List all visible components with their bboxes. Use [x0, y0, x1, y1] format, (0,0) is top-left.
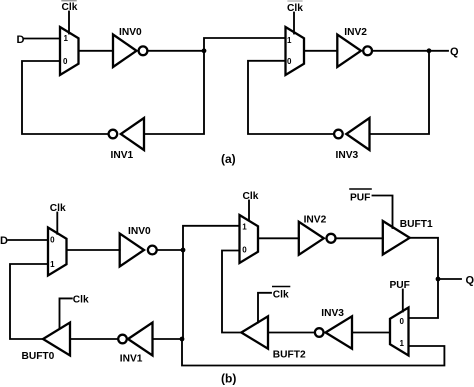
svg-text:0: 0: [400, 317, 405, 326]
wire Clk to M0: [68, 12, 70, 34]
svg-text:(a): (a): [221, 152, 236, 166]
svg-text:PUF: PUF: [350, 193, 370, 204]
svg-text:BUFT0: BUFT0: [22, 351, 55, 362]
svg-text:PUF: PUF: [390, 280, 410, 291]
mux M0: [60, 27, 79, 75]
svg-text:0: 0: [50, 236, 55, 245]
wire Clk-bar to BUFT2: [258, 293, 271, 323]
inverter INV0 (b): [120, 234, 144, 267]
svg-text:Clk: Clk: [73, 295, 89, 306]
grey overline artifact: [288, 0, 302, 2]
inverter INV2: [337, 35, 361, 68]
svg-text:D: D: [17, 34, 25, 46]
wire INV0 to node: [147, 50, 204, 52]
tri-state buffer BUFT1: [383, 221, 410, 255]
svg-text:D: D: [0, 235, 8, 247]
svg-text:Clk: Clk: [287, 3, 303, 14]
wire BUFT0 out to M2 input 1: [10, 264, 48, 339]
svg-text:INV3: INV3: [336, 150, 359, 161]
svg-text:INV3: INV3: [321, 308, 344, 319]
wire BUFT1 out down to M4 input 0: [409, 238, 439, 318]
wire D input (b): [8, 239, 48, 241]
wire BUFT2 out to M3 input 0: [222, 251, 241, 333]
svg-text:INV0: INV0: [119, 27, 142, 38]
svg-text:0: 0: [63, 57, 68, 66]
wire J2 to INV1: [153, 338, 183, 340]
wire M2 output: [67, 249, 120, 251]
wire Clk to M2: [56, 213, 58, 234]
wire INV1 out to M0 input 0: [22, 61, 109, 134]
node J1: [181, 248, 186, 253]
wire M1 output: [304, 50, 337, 52]
wire node to Q label: [438, 278, 461, 280]
wire M4 out to INV3: [352, 332, 390, 334]
node J2: [180, 337, 185, 342]
grey overline artifact: [62, 0, 76, 2]
inverter INV0: [113, 35, 137, 68]
svg-text:1: 1: [50, 260, 55, 269]
wire node down to INV1: [144, 51, 204, 134]
wire INV3 to BUFT2: [268, 332, 315, 334]
svg-text:INV2: INV2: [344, 27, 367, 38]
svg-text:Q: Q: [450, 46, 459, 58]
svg-text:1: 1: [242, 223, 247, 232]
mux M3: [240, 215, 259, 263]
wire M0 output: [79, 50, 114, 52]
svg-text:1: 1: [64, 34, 69, 43]
wire INV3 out to M1 input 0: [248, 61, 334, 134]
svg-text:0: 0: [287, 57, 292, 66]
wire PUF to M4: [402, 290, 404, 312]
wire INV2 to BUFT1: [336, 237, 383, 239]
svg-text:INV2: INV2: [304, 215, 327, 226]
mux M4 (PUF mux): [390, 308, 409, 356]
svg-text:(b): (b): [221, 372, 236, 386]
wire INV2 to Q: [372, 50, 448, 52]
wire node up to M1: [204, 38, 286, 51]
wire INV1 to BUFT0: [70, 338, 118, 340]
wire Q feedback down: [370, 51, 430, 134]
wire Clk to BUFT0: [60, 298, 72, 328]
svg-text:INV0: INV0: [128, 226, 151, 237]
svg-text:Clk: Clk: [273, 290, 289, 301]
wire Clk to M3: [248, 201, 250, 221]
wire PUF-bar to BUFT1: [373, 196, 393, 229]
svg-text:BUFT2: BUFT2: [273, 350, 306, 361]
inverter INV1: [121, 118, 144, 150]
wire D input: [24, 38, 60, 40]
mux M2: [48, 228, 67, 276]
svg-text:Q: Q: [466, 275, 474, 287]
wire INV0 to node J1: [157, 249, 183, 251]
mux M1: [286, 27, 305, 75]
inverter INV1 (b): [128, 323, 153, 356]
inverter INV3 (b): [326, 316, 353, 348]
inverter INV3: [346, 118, 369, 150]
wire M4 input 1 from bottom loop: [182, 339, 444, 366]
wire Clk to M1: [293, 13, 295, 34]
svg-text:INV1: INV1: [111, 150, 134, 161]
wire J1 down to J2: [182, 250, 184, 339]
wire M3 output: [258, 237, 299, 239]
svg-text:Clk: Clk: [243, 191, 259, 202]
svg-text:INV1: INV1: [120, 354, 143, 365]
svg-text:0: 0: [242, 246, 247, 255]
tri-state buffer BUFT0: [43, 323, 70, 356]
svg-text:BUFT1: BUFT1: [400, 219, 433, 230]
node master out: [202, 48, 207, 53]
svg-text:1: 1: [400, 339, 405, 348]
inverter INV2 (b): [299, 222, 324, 255]
node Q (a): [427, 48, 432, 53]
node Q (b): [436, 277, 441, 282]
svg-text:1: 1: [287, 36, 292, 45]
wire J1 up to M3 input 1: [183, 226, 240, 250]
tri-state buffer BUFT2: [241, 316, 268, 348]
